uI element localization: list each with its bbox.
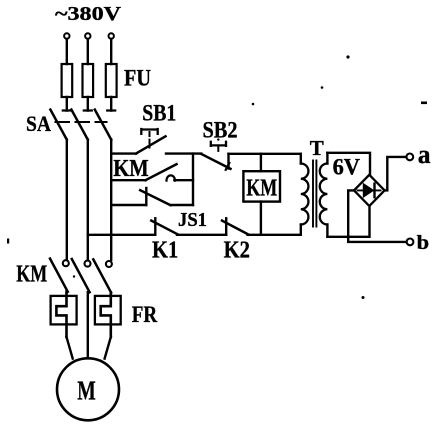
svg-text:KM: KM [246,175,277,201]
svg-text:FU: FU [124,66,151,91]
svg-text:b: b [417,233,430,254]
svg-text:JS1: JS1 [178,209,207,231]
svg-text:KM: KM [16,261,47,287]
svg-text:SA: SA [26,111,51,136]
svg-text:SB1: SB1 [142,101,176,126]
svg-text:a: a [418,140,431,169]
svg-text:SB2: SB2 [203,117,238,142]
svg-text:FR: FR [132,302,158,327]
svg-text:~380V: ~380V [55,4,121,25]
svg-text:KM: KM [113,156,149,182]
svg-text:M: M [77,375,96,406]
svg-text:K2: K2 [224,238,250,264]
svg-text:6V: 6V [333,155,361,180]
svg-text:T: T [310,136,324,160]
svg-text:K1: K1 [152,238,178,264]
